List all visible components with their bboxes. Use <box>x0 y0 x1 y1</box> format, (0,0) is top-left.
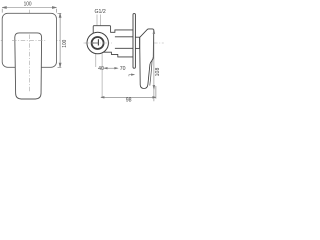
svg-text:40: 40 <box>98 66 104 72</box>
dimension 40-70 double arrow <box>104 67 117 69</box>
cartridge tube upper line <box>115 36 133 38</box>
valve body silhouette <box>93 26 133 57</box>
horizontal centerline of front view <box>1 39 62 41</box>
svg-text:100: 100 <box>24 1 32 7</box>
handle centerline segment <box>28 35 30 92</box>
valve housing outer circle <box>87 32 109 54</box>
axis centerline over circle <box>85 42 112 44</box>
wall plate (side view, on edge) <box>133 14 135 69</box>
horizontal centerline over handle <box>12 39 46 41</box>
svg-text:G1/2: G1/2 <box>94 9 105 15</box>
lever blade (side view) <box>140 29 154 89</box>
cartridge slot vertical bar <box>97 39 99 45</box>
dimension 98 (projection) <box>101 86 156 99</box>
valve cartridge inner ring <box>92 37 104 49</box>
plate reference leader arrow <box>129 74 134 76</box>
G1/2 leader line right <box>100 15 102 26</box>
svg-text:100: 100 <box>62 40 68 48</box>
svg-text:98: 98 <box>126 98 132 104</box>
dimension 100 (top width) line with arrows <box>2 7 56 13</box>
lever hub (side view) <box>135 37 139 48</box>
horizontal axis centerline <box>84 42 164 44</box>
cartridge centerline slot <box>93 42 98 44</box>
wall surface line (min depth / 98 reference) <box>101 30 103 98</box>
dimension 100 (right height) line with arrows <box>58 13 62 67</box>
dimension 108 (total height) <box>153 30 155 102</box>
cartridge tube lower line <box>115 47 133 49</box>
svg-text:108: 108 <box>155 68 161 77</box>
svg-text:70: 70 <box>120 66 126 72</box>
vertical centerline of front view <box>28 10 30 91</box>
lever blade inner contour <box>150 60 152 86</box>
lever handle (front view, pointing down) <box>15 33 42 99</box>
wall surface line (max depth) <box>95 30 97 67</box>
wall plate 100x100 (front view outline) <box>2 13 56 67</box>
G1/2 leader line left <box>96 15 98 26</box>
